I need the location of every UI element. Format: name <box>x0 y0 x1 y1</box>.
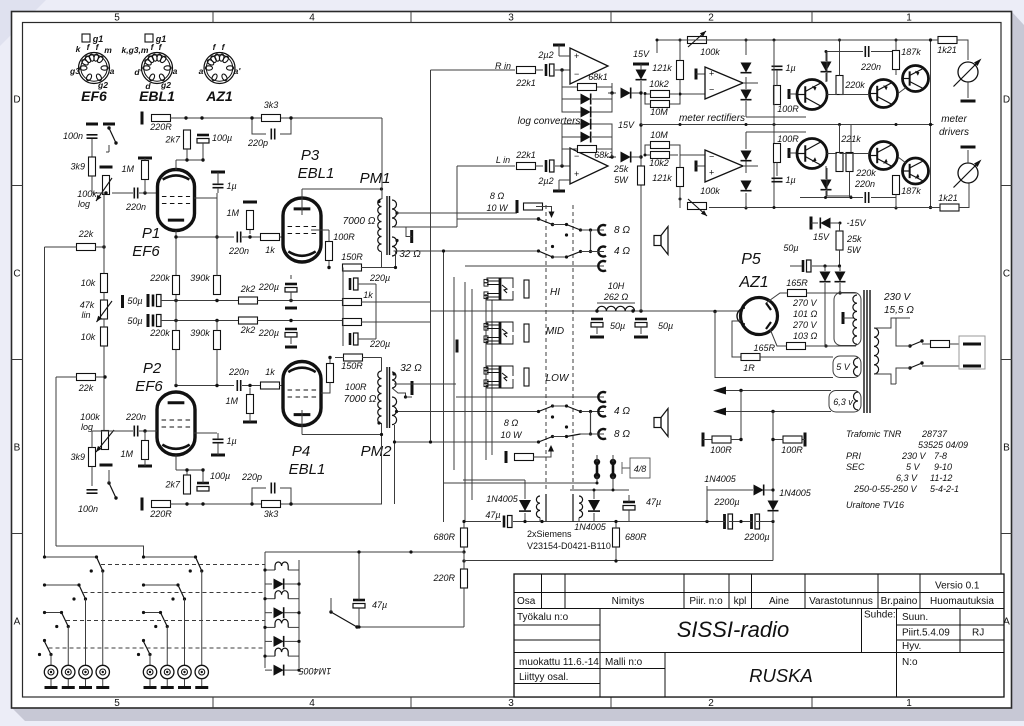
junction <box>589 410 592 413</box>
socket EBL1 pin g1 square <box>145 34 153 42</box>
svg-text:2µ2: 2µ2 <box>537 50 553 60</box>
wire gnd L in <box>559 179 570 181</box>
wire relay3 d l <box>265 669 272 671</box>
transistor mr L1 <box>797 139 827 169</box>
junction <box>771 488 774 491</box>
wire relay0 coil r <box>288 569 299 571</box>
junction <box>142 639 145 642</box>
svg-text:121k: 121k <box>652 173 672 183</box>
junction <box>143 191 146 194</box>
arrow load top <box>549 212 555 219</box>
junction <box>90 569 93 572</box>
junction <box>771 438 774 441</box>
wire P3 plate to PM1 <box>302 188 382 190</box>
svg-text:10k: 10k <box>81 278 96 288</box>
junction <box>143 429 146 432</box>
diode mr R3 <box>821 62 832 72</box>
resistor 187k R <box>893 51 900 70</box>
svg-text:−: − <box>709 85 714 95</box>
ground meter R <box>961 100 976 103</box>
junction <box>185 158 188 161</box>
potentiometer 100k wiper <box>96 178 112 201</box>
potentiometer 100k log body <box>103 176 110 195</box>
svg-text:2k2: 2k2 <box>240 284 256 294</box>
svg-text:25k: 25k <box>613 164 629 174</box>
svg-text:log converters: log converters <box>518 116 581 127</box>
junction <box>215 384 218 387</box>
wire heater ct b <box>772 412 774 524</box>
svg-text:2k7: 2k7 <box>164 480 181 490</box>
wire plate node P1 <box>176 159 203 161</box>
wire bias dn3 <box>772 523 774 561</box>
junction <box>656 39 659 42</box>
wire matrix g1 drop0 <box>201 571 203 665</box>
wire divider2 <box>103 319 105 327</box>
wire P2 plate out <box>176 385 234 387</box>
connector 4ohm out <box>598 247 606 257</box>
junction <box>174 319 177 322</box>
svg-text:15V: 15V <box>633 49 650 59</box>
resistor 100R mr R <box>774 86 781 105</box>
transformer PM2 primary winding <box>378 371 382 424</box>
junction <box>101 569 104 572</box>
svg-text:50µ: 50µ <box>127 296 142 306</box>
svg-text:50µ: 50µ <box>127 316 142 326</box>
svg-text:meter: meter <box>941 114 967 125</box>
title block grid <box>514 574 1004 697</box>
switch spk4c <box>567 434 581 437</box>
wire R in <box>456 69 515 71</box>
capacitor 50u filter1 <box>591 319 603 327</box>
svg-text:Nimitys: Nimitys <box>612 596 645 607</box>
junction <box>176 583 179 586</box>
junction <box>895 207 898 210</box>
wire 50u f1 <box>596 327 598 334</box>
diode output L <box>621 152 631 163</box>
wire P4 plate dn <box>301 410 303 435</box>
wire 220k b down <box>175 350 177 386</box>
dot PM2 p <box>377 421 380 424</box>
svg-text:+: + <box>574 169 579 179</box>
wire 47u E up <box>358 552 360 600</box>
svg-text:100µ: 100µ <box>212 133 232 143</box>
svg-text:15V: 15V <box>813 232 830 242</box>
wire 48 c <box>596 476 598 483</box>
svg-text:390k: 390k <box>190 328 210 338</box>
junction <box>838 123 841 126</box>
svg-text:4 Ω: 4 Ω <box>614 406 630 417</box>
winding 6.3V coil <box>854 392 859 410</box>
wire relay0 d r <box>284 583 299 585</box>
capacitor 220n out 220n <box>228 232 249 257</box>
svg-text:100R: 100R <box>710 445 732 455</box>
wire 10H overline <box>597 302 635 304</box>
meter R <box>954 59 982 87</box>
terminal -15V <box>810 217 813 230</box>
tube P4 EBL1 <box>283 362 321 426</box>
svg-text:1M: 1M <box>226 208 239 218</box>
junction <box>49 653 52 656</box>
connector input jack g1 1 <box>161 665 174 678</box>
svg-text:10k2: 10k2 <box>649 158 669 168</box>
svg-text:EF6: EF6 <box>132 243 160 260</box>
capacitor 220n out b 220n <box>228 367 249 391</box>
svg-text:100R: 100R <box>333 232 355 242</box>
svg-text:1µ: 1µ <box>786 63 796 73</box>
svg-text:390k: 390k <box>190 273 210 283</box>
capacitor 100u 100µ <box>197 133 232 143</box>
wire relay B coil dn <box>578 518 580 522</box>
wire mr R gnd <box>696 73 705 75</box>
wire out to fb L <box>611 124 613 157</box>
junction <box>565 404 568 407</box>
svg-text:100n: 100n <box>63 131 83 141</box>
wire spk link <box>590 230 592 252</box>
junction <box>614 520 617 523</box>
resistor fb2 <box>343 319 362 326</box>
wire p5 anode b <box>770 329 787 346</box>
junction <box>357 550 360 553</box>
junction <box>297 611 300 614</box>
diode -15V <box>820 218 830 229</box>
wire 100u up <box>202 470 204 483</box>
wire mr R out <box>743 82 758 84</box>
svg-text:50µ: 50µ <box>610 321 625 331</box>
wire bias a <box>707 489 753 491</box>
diode log R2 <box>581 107 591 118</box>
ground opamp mr L <box>695 161 698 172</box>
junction <box>327 266 330 269</box>
wire to zener node <box>631 92 641 94</box>
switch spk3c <box>567 406 581 412</box>
wire jack stem g0 0 <box>50 679 52 686</box>
wire feedback box R <box>562 70 612 112</box>
resistor 25k 5W <box>638 166 645 185</box>
svg-text:8 Ω: 8 Ω <box>504 418 519 428</box>
wire pot b to 220n <box>105 430 133 432</box>
wire 390k b up <box>216 321 218 331</box>
wire P4 g2 <box>321 383 330 394</box>
wire gnd stub <box>144 158 146 161</box>
relay A coil <box>536 496 540 518</box>
ruler tick top <box>811 12 813 23</box>
switch spk2 <box>539 251 553 257</box>
svg-text:7000 Ω: 7000 Ω <box>343 216 376 227</box>
wire 150R b right <box>362 357 382 359</box>
wire 220u p3a <box>358 283 376 285</box>
wire hv b dn <box>839 283 841 293</box>
ground jack g1 0 <box>144 686 157 689</box>
wire 32 tap b <box>392 388 406 397</box>
svg-text:8 Ω: 8 Ω <box>614 429 630 440</box>
capacitor 47u E <box>353 600 365 608</box>
svg-text:8 Ω: 8 Ω <box>490 191 505 201</box>
junction <box>43 639 46 642</box>
junction <box>103 375 106 378</box>
junction <box>579 228 582 231</box>
resistor 10M R 10M <box>650 101 669 118</box>
wire 48 a <box>596 455 598 462</box>
wire 1k b to P4 <box>279 385 284 387</box>
pot 100k R wiper <box>688 31 706 47</box>
wire prim b2 <box>896 368 910 384</box>
wire PM1 primary bottom <box>381 252 383 268</box>
switch spk1c <box>567 225 581 231</box>
wire jack stem g1 2 <box>184 679 186 686</box>
transformer PM2 core line <box>386 367 388 428</box>
svg-text:PRI: PRI <box>846 451 862 461</box>
svg-text:3k3: 3k3 <box>264 509 279 519</box>
svg-text:100k: 100k <box>700 186 720 196</box>
wire heater b <box>719 411 831 413</box>
junction <box>551 435 554 438</box>
svg-text:m: m <box>104 45 112 55</box>
wire 2k7 up <box>186 470 188 475</box>
ruler tick top <box>212 12 214 23</box>
svg-text:1k: 1k <box>363 290 373 300</box>
junction <box>154 625 157 628</box>
wire heater ct a <box>740 391 742 440</box>
svg-text:SEC: SEC <box>846 462 865 472</box>
capacitor 100n 100n <box>63 131 98 141</box>
wire relay B feed <box>570 489 612 491</box>
wire spk row1 stub <box>456 219 458 227</box>
wire 1u b up <box>217 433 219 439</box>
switch mains b <box>908 361 923 369</box>
wire 390k b down <box>216 350 218 386</box>
wire relay2 d l <box>265 640 272 642</box>
wire matrix g0 drop0 <box>102 571 104 665</box>
svg-text:1M: 1M <box>120 449 133 459</box>
wire 3k9 to pot <box>91 176 93 193</box>
svg-text:P3: P3 <box>301 147 320 164</box>
svg-text:P1: P1 <box>142 225 160 242</box>
diode 1N4005 relay B <box>588 500 600 511</box>
junction <box>328 356 331 359</box>
wire R in feed <box>431 69 457 71</box>
resistor load bottom <box>515 454 534 461</box>
svg-text:187k: 187k <box>901 186 921 196</box>
potentiometer 47k lin body <box>101 300 108 319</box>
junction <box>551 255 554 258</box>
connector input jack g1 3 <box>195 665 208 678</box>
svg-text:25k: 25k <box>846 234 862 244</box>
ruler tick bottom <box>811 697 813 708</box>
wire P1 plate out <box>176 236 234 238</box>
svg-text:10k: 10k <box>81 332 96 342</box>
svg-text:250-0-55-250 V: 250-0-55-250 V <box>853 484 918 494</box>
selector dashed line 2 <box>572 205 574 490</box>
resistor 2k2 2k2 <box>239 284 258 304</box>
op-amp meter rectifier L <box>705 150 743 182</box>
wire bundle x430.5 <box>430 70 432 441</box>
wire 48 b <box>612 455 614 462</box>
svg-text:2µ2: 2µ2 <box>537 176 553 186</box>
svg-text:PM1: PM1 <box>360 170 391 187</box>
svg-text:P5: P5 <box>741 251 761 268</box>
resistor 680R a <box>461 528 468 547</box>
wire meter L up <box>967 150 969 163</box>
wire d3 L up <box>825 166 827 179</box>
transistor mr R2 <box>870 80 898 108</box>
svg-text:150R: 150R <box>341 361 363 371</box>
svg-text:47k: 47k <box>80 300 95 310</box>
junction <box>77 583 80 586</box>
terminal B+ feed <box>141 112 144 125</box>
wire fuse r <box>949 343 959 345</box>
junction <box>166 625 169 628</box>
wire 47u A l <box>463 521 501 523</box>
diode hv a <box>820 272 831 282</box>
wire d3 L dn <box>825 191 827 198</box>
wire spk b link <box>590 412 592 435</box>
wire 100Rb l <box>773 439 784 441</box>
junction <box>589 250 592 253</box>
resistor 1k grid stop 1k <box>261 234 280 256</box>
svg-text:10k2: 10k2 <box>649 79 669 89</box>
svg-text:MID: MID <box>546 326 564 337</box>
svg-text:−: − <box>574 69 579 79</box>
capacitor 50u p5 <box>803 260 811 272</box>
junction <box>142 583 145 586</box>
svg-text:RJ: RJ <box>972 628 984 639</box>
resistor 390k b <box>214 331 221 350</box>
svg-text:2k7: 2k7 <box>164 135 181 145</box>
transformer mains core 1 <box>863 290 865 413</box>
jumper block 4/8 posts <box>594 459 616 479</box>
tube P2 EF6 <box>157 392 195 455</box>
capacitor 2u2 R 2µ2 <box>537 50 554 76</box>
wire pot b wiper <box>92 430 105 432</box>
wire jack stem g1 0 <box>149 679 151 686</box>
transformer mains core 3 <box>869 290 871 413</box>
svg-text:5W: 5W <box>847 245 862 255</box>
svg-text:100k: 100k <box>77 189 97 199</box>
junction <box>771 410 774 413</box>
wire -15V a <box>811 222 818 224</box>
junction <box>771 520 774 523</box>
junction <box>297 582 300 585</box>
wire 220k up <box>839 40 841 76</box>
wire opamp R out <box>608 92 616 94</box>
capacitor 220n b 220n <box>125 412 146 437</box>
wire prim a <box>896 317 910 319</box>
svg-text:Varastotunnus: Varastotunnus <box>809 596 873 607</box>
capacitor 220u p3a <box>350 278 358 290</box>
junction <box>72 597 75 600</box>
junction <box>823 264 826 267</box>
junction <box>589 228 592 231</box>
wire PM2 primary top <box>381 358 383 372</box>
transformer PM2 core line 2 <box>389 367 391 428</box>
wire 220R c dn <box>463 588 465 627</box>
svg-text:EBL1: EBL1 <box>289 461 326 478</box>
svg-text:6,3 V: 6,3 V <box>896 473 918 483</box>
wire 1k21 to meter L <box>959 183 969 208</box>
wire 220p bypass loop <box>252 118 291 134</box>
svg-text:680R: 680R <box>625 532 647 542</box>
junction <box>248 235 251 238</box>
junction <box>102 245 105 248</box>
selector dashed row <box>49 647 266 649</box>
svg-text:5 V: 5 V <box>906 462 921 472</box>
contact dot b2 <box>551 415 554 418</box>
ground <box>86 123 98 126</box>
wire P3 k tap <box>311 229 329 231</box>
svg-text:+: + <box>709 69 714 79</box>
tube socket EF6 <box>79 53 110 84</box>
junction <box>537 440 540 443</box>
junction <box>560 164 563 167</box>
wire to 4ohm b <box>581 411 605 413</box>
ground 1u b <box>211 454 225 457</box>
wire P4 plate to PM2 <box>302 434 382 436</box>
wire PM1 top <box>381 118 383 199</box>
wire 220u to gnd <box>290 292 292 302</box>
wire z1 <box>640 64 642 70</box>
wire standby to 220R <box>357 626 464 628</box>
resistor 150R 150R <box>341 252 363 271</box>
junction <box>705 520 708 523</box>
connector common out <box>598 261 606 271</box>
switch matrix g1 r0 <box>196 557 202 571</box>
resistor 3k9 3k9 <box>70 157 95 176</box>
svg-text:22k1: 22k1 <box>515 78 536 88</box>
wire 187k L dn <box>895 195 897 209</box>
wire bundle x472 <box>471 289 473 500</box>
junction <box>174 384 177 387</box>
resistor 220R c <box>461 569 468 588</box>
wire sec4 b <box>395 425 539 442</box>
svg-text:1k: 1k <box>265 245 275 255</box>
junction <box>565 255 568 258</box>
wire 100n to 3k9 <box>91 139 93 157</box>
svg-text:D: D <box>13 95 20 106</box>
wire B+ tap to 5V winding <box>715 312 833 378</box>
wire 50u l <box>790 265 802 267</box>
tube P5 AZ1 <box>737 298 778 335</box>
wire heater a <box>719 390 831 392</box>
ground <box>100 166 113 169</box>
wire load hook <box>536 207 552 214</box>
capacitor 50u 50µ <box>127 295 161 307</box>
wire jack stem g0 1 <box>67 679 69 686</box>
PM1 secondary winding a <box>392 200 397 227</box>
wire matrix g0 row2 <box>45 612 62 614</box>
wire hv a dn <box>824 283 826 346</box>
svg-text:Piirt.5.4.09: Piirt.5.4.09 <box>902 628 950 639</box>
resistor 220R b 220R <box>149 501 172 520</box>
wire bottom rail mr <box>709 207 903 209</box>
svg-text:+: + <box>574 51 579 61</box>
svg-text:270 V: 270 V <box>792 320 818 330</box>
resistor 100R heater a <box>712 436 731 443</box>
wire gnd R in <box>559 55 570 57</box>
wire bias bus c <box>756 521 773 523</box>
wire rail to 1k21 <box>903 39 938 41</box>
wire q interconnects L <box>827 154 906 197</box>
svg-text:drivers: drivers <box>939 127 969 138</box>
potentiometer 100k L <box>688 203 707 210</box>
wire matrix g0 row1 <box>45 584 80 586</box>
wire matrix g1 row2 <box>144 612 161 614</box>
svg-text:262 Ω: 262 Ω <box>603 292 629 302</box>
wire 10k2/10M join R <box>645 94 705 104</box>
ground jack g0 2 <box>79 686 92 689</box>
wire 4/8 lead <box>622 462 630 474</box>
diode relay 2 <box>274 636 284 647</box>
resistor 1M p3 <box>247 211 254 230</box>
